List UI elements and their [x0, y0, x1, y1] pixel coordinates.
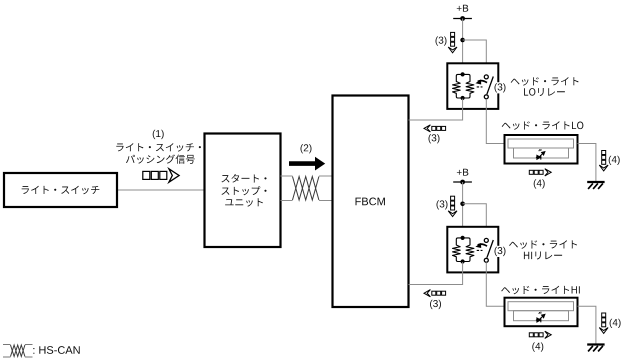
connector (4) LO ground wire [602, 151, 606, 155]
connector (3) HI coil-FBCM [424, 290, 430, 297]
connector (3) HI supply [451, 196, 455, 200]
headlight LO box [505, 135, 578, 164]
label (4) headlight HI [532, 342, 543, 351]
lamp inner reflector [514, 311, 569, 321]
label (3) relay pin LO [494, 83, 505, 92]
relay switch blade LO [487, 77, 493, 95]
relay box LO [447, 63, 498, 109]
relay dashed link HI [477, 249, 483, 251]
wire: LO relay switch to headlight LO [486, 99, 504, 144]
wire: HI relay switch to headlight HI [486, 262, 504, 306]
wire: headlight LO to ground [578, 144, 596, 182]
label: headlight LO [502, 121, 584, 130]
label: headlight LO relay line1 [511, 77, 579, 86]
label: passing signal line1 [116, 143, 201, 152]
relay coil HI (parallel resistor elements) [453, 238, 474, 262]
label: headlight HI relay line2 [524, 251, 562, 259]
wire: branch to LO relay switch [463, 40, 487, 76]
lamp inner housing [508, 139, 574, 148]
label (4) headlight LO [534, 179, 545, 188]
wire: +B down to HI relay coil [462, 182, 464, 238]
label: start-stop unit line1 [221, 174, 266, 183]
relay actuation arrow HI [478, 244, 487, 246]
HS-CAN twisted pair bus: start-stop unit to FBCM [281, 176, 333, 201]
lamp inner reflector [514, 148, 569, 158]
ground (HI) [587, 343, 604, 345]
connector (4) below headlight HI [529, 333, 533, 337]
ground (LO) [587, 181, 604, 183]
wire: HI relay coil to FBCM [409, 262, 463, 284]
junction dot (HI) [460, 202, 465, 207]
label (3) relay pin HI white backing [493, 246, 507, 257]
label (2) [300, 144, 311, 153]
relay coil terminal dots LO [461, 72, 465, 76]
label (4) LO ground wire [609, 156, 620, 165]
legend: HS-CAN twisted pair symbol [3, 345, 33, 358]
label FBCM [356, 197, 385, 205]
label (4) HI ground wire [610, 319, 621, 328]
box: light switch [4, 173, 117, 207]
legend label : HS-CAN [33, 346, 79, 354]
label (3) LO supply [435, 36, 446, 45]
arrow: CAN signal direction [289, 157, 325, 171]
label (3) relay pin HI [494, 247, 505, 256]
headlight HI box [505, 298, 578, 327]
bulb (discharge lamp symbol) [536, 312, 545, 323]
label: passing signal line2 [126, 155, 195, 164]
label: headlight LO relay line2 [524, 88, 565, 96]
connector (3) LO coil-FBCM [424, 125, 430, 132]
label (1) [153, 130, 164, 139]
power bar +B (HI) [453, 181, 472, 183]
label (3) LO coil wire [428, 134, 439, 143]
relay switch contacts HI [484, 238, 488, 242]
power bar +B (LO) [453, 18, 472, 20]
connector: passing signal (squares + right arrow) [143, 171, 150, 179]
connector (4) HI ground wire [602, 313, 606, 317]
junction dot (LO) [460, 38, 465, 43]
box: FBCM [333, 96, 409, 308]
connector (3) LO supply [451, 32, 455, 36]
label: headlight HI relay line1 [509, 240, 577, 249]
label (3) HI coil wire [430, 300, 441, 309]
box: start-stop unit [205, 134, 281, 248]
wire: branch to HI relay switch [463, 204, 487, 240]
bulb (discharge lamp symbol) [536, 149, 545, 160]
relay dashed link LO [477, 86, 483, 88]
label (3) relay pin LO white backing [493, 82, 507, 93]
power label +B (LO) [457, 5, 469, 12]
label: start-stop unit line3 [225, 198, 263, 206]
relay switch blade HI [487, 240, 493, 258]
label (3) HI supply [436, 200, 447, 209]
wire: +B down to LO relay coil [462, 19, 464, 75]
relay switch contacts LO [484, 75, 488, 79]
lamp inner housing [508, 302, 574, 311]
label: light switch [22, 186, 100, 195]
wire: headlight HI to ground [578, 306, 596, 343]
power label +B (HI) [457, 169, 469, 176]
connector (4) below headlight LO [529, 170, 533, 174]
relay coil terminal dots HI [461, 236, 465, 240]
relay coil LO (parallel resistor elements) [453, 74, 474, 98]
label: headlight HI [501, 286, 580, 295]
relay actuation arrow LO [478, 81, 487, 83]
label: start-stop unit line2 [221, 186, 266, 195]
wire: light switch to start-stop unit [117, 189, 205, 191]
relay box HI [447, 227, 498, 273]
wire: LO relay coil to FBCM [409, 99, 463, 120]
